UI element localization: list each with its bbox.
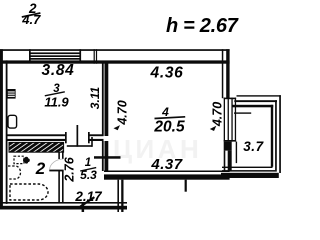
- svg-text:2.76: 2.76: [63, 156, 77, 182]
- svg-text:2.17: 2.17: [74, 189, 103, 204]
- svg-text:2: 2: [35, 159, 46, 178]
- svg-text:3.11: 3.11: [88, 86, 102, 109]
- svg-text:20.5: 20.5: [153, 119, 185, 136]
- svg-text:4: 4: [161, 105, 169, 119]
- svg-text:3.84: 3.84: [42, 62, 75, 79]
- svg-text:4.70: 4.70: [116, 100, 130, 125]
- svg-text:11.9: 11.9: [44, 94, 69, 109]
- svg-text:4.70: 4.70: [210, 102, 224, 127]
- svg-text:4.37: 4.37: [150, 156, 182, 173]
- svg-text:4.36: 4.36: [150, 65, 184, 82]
- svg-text:1: 1: [85, 157, 91, 169]
- svg-text:5.3: 5.3: [80, 168, 97, 182]
- svg-text:h = 2.67: h = 2.67: [166, 15, 239, 37]
- svg-text:3.7: 3.7: [243, 139, 264, 154]
- svg-text:4.7: 4.7: [21, 12, 41, 27]
